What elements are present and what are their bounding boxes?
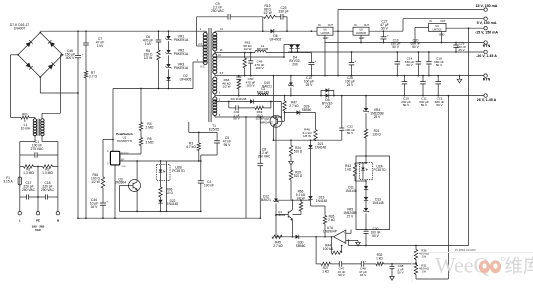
svg-text:16 V: 16 V bbox=[360, 273, 367, 277]
svg-text:1N4148: 1N4148 bbox=[167, 202, 178, 206]
svg-text:1N4148: 1N4148 bbox=[372, 201, 383, 205]
svg-text:2.7 Ω: 2.7 Ω bbox=[89, 75, 97, 79]
svg-text:1%: 1% bbox=[422, 255, 427, 259]
svg-text:MP1345: MP1345 bbox=[257, 91, 269, 95]
svg-text:1N4148: 1N4148 bbox=[315, 145, 326, 149]
svg-text:OUT: OUT bbox=[328, 24, 334, 27]
svg-text:95 V: 95 V bbox=[224, 143, 232, 147]
svg-text:RTN: RTN bbox=[483, 44, 491, 48]
svg-text:IN: IN bbox=[430, 20, 433, 23]
svg-text:100 kΩ: 100 kΩ bbox=[323, 247, 334, 251]
svg-text:PE: PE bbox=[36, 219, 40, 223]
svg-text:PI-4884-021306: PI-4884-021306 bbox=[455, 248, 476, 252]
svg-text:1%: 1% bbox=[422, 270, 427, 274]
svg-text:-15 V, 150 mA: -15 V, 150 mA bbox=[475, 30, 498, 34]
svg-text:IN: IN bbox=[354, 24, 357, 27]
svg-text:50 V: 50 V bbox=[406, 63, 413, 67]
svg-text:50 V: 50 V bbox=[392, 45, 399, 49]
svg-text:4.7 kΩ: 4.7 kΩ bbox=[186, 145, 196, 149]
svg-text:1 kΩ: 1 kΩ bbox=[376, 256, 383, 260]
svg-text:PC817D: PC817D bbox=[373, 168, 386, 172]
svg-text:275 VAC: 275 VAC bbox=[31, 147, 45, 151]
svg-text:1.3 MΩ: 1.3 MΩ bbox=[23, 171, 34, 175]
svg-text:2.7 kΩ: 2.7 kΩ bbox=[273, 244, 283, 248]
svg-text:100 nF: 100 nF bbox=[204, 183, 214, 187]
svg-text:2 kΩ: 2 kΩ bbox=[328, 218, 335, 222]
svg-text:UA7815: UA7815 bbox=[321, 32, 330, 35]
svg-text:LM78L05: LM78L05 bbox=[356, 32, 367, 35]
svg-text:1N4007: 1N4007 bbox=[14, 27, 26, 31]
svg-text:8,9: 8,9 bbox=[220, 72, 224, 75]
svg-text:50 V: 50 V bbox=[436, 103, 443, 107]
svg-text:2N3642: 2N3642 bbox=[275, 213, 286, 217]
svg-text:1/8 W: 1/8 W bbox=[296, 196, 304, 200]
svg-text:UF4002: UF4002 bbox=[270, 38, 282, 42]
svg-text:400 V: 400 V bbox=[66, 56, 75, 60]
svg-text:1N4148: 1N4148 bbox=[316, 199, 327, 203]
svg-text:RTN: RTN bbox=[483, 78, 491, 82]
svg-text:50 V: 50 V bbox=[338, 273, 345, 277]
svg-text:50 V: 50 V bbox=[347, 131, 354, 135]
svg-text:200: 200 bbox=[292, 63, 298, 67]
svg-text:E25/25: E25/25 bbox=[209, 128, 220, 132]
svg-text:SB560: SB560 bbox=[302, 108, 312, 112]
svg-text:2.7 kΩ: 2.7 kΩ bbox=[289, 104, 299, 108]
svg-text:250 VAC: 250 VAC bbox=[22, 188, 36, 192]
svg-text:PC817D: PC817D bbox=[172, 169, 185, 173]
svg-text:5 V, 150 mA: 5 V, 150 mA bbox=[477, 21, 497, 25]
svg-text:25 V: 25 V bbox=[306, 83, 314, 87]
svg-text:MP1345: MP1345 bbox=[257, 47, 269, 51]
svg-text:50 V: 50 V bbox=[412, 45, 419, 49]
svg-text:-26 V, 1.45 A: -26 V, 1.45 A bbox=[476, 54, 497, 58]
svg-text:GND: GND bbox=[121, 166, 126, 168]
svg-text:2N3904: 2N3904 bbox=[115, 181, 126, 185]
svg-text:L: L bbox=[19, 219, 21, 223]
svg-text:510 Ω: 510 Ω bbox=[294, 174, 303, 178]
svg-text:50 V: 50 V bbox=[436, 63, 443, 67]
svg-text:LM7915: LM7915 bbox=[433, 28, 442, 31]
svg-text:1/8 W: 1/8 W bbox=[303, 134, 311, 138]
svg-text:130 Ω: 130 Ω bbox=[372, 132, 381, 136]
svg-text:1 kΩ: 1 kΩ bbox=[345, 167, 352, 171]
svg-text:250 VAC: 250 VAC bbox=[211, 9, 225, 13]
svg-text:250 VAC: 250 VAC bbox=[258, 154, 271, 158]
svg-text:510 Ω: 510 Ω bbox=[294, 149, 303, 153]
svg-text:维库: 维库 bbox=[505, 256, 533, 277]
svg-text:EN/UV: EN/UV bbox=[121, 152, 129, 155]
svg-text:GND: GND bbox=[359, 37, 365, 40]
svg-text:P6KE91A: P6KE91A bbox=[174, 52, 189, 56]
svg-text:1 kV: 1 kV bbox=[145, 42, 152, 46]
svg-text:MPSA42: MPSA42 bbox=[260, 120, 272, 124]
svg-text:BAV21: BAV21 bbox=[261, 198, 271, 202]
svg-text:26 V, 1.45 A: 26 V, 1.45 A bbox=[477, 98, 497, 102]
svg-text:1 kΩ: 1 kΩ bbox=[322, 269, 329, 273]
svg-text:50 V: 50 V bbox=[403, 103, 410, 107]
svg-text:1/2 W: 1/2 W bbox=[243, 47, 251, 51]
svg-text:IN: IN bbox=[318, 24, 321, 27]
svg-text:OUT: OUT bbox=[440, 20, 446, 23]
svg-text:GND: GND bbox=[323, 37, 329, 40]
svg-text:330 pF: 330 pF bbox=[278, 10, 288, 14]
svg-text:50 V: 50 V bbox=[421, 103, 428, 107]
svg-text:2,3: 2,3 bbox=[198, 43, 202, 46]
svg-text:N.C.: N.C. bbox=[201, 66, 206, 69]
svg-text:2 MΩ: 2 MΩ bbox=[146, 141, 154, 145]
svg-text:3.15 A: 3.15 A bbox=[3, 180, 13, 184]
svg-text:VAC: VAC bbox=[35, 228, 42, 232]
svg-text:50 V: 50 V bbox=[397, 271, 404, 275]
svg-text:1/2 W: 1/2 W bbox=[222, 85, 230, 89]
svg-text:P6KE91A: P6KE91A bbox=[174, 66, 189, 70]
svg-text:250 VAC: 250 VAC bbox=[41, 188, 55, 192]
svg-text:SB560: SB560 bbox=[296, 244, 306, 248]
svg-text:16 V: 16 V bbox=[91, 205, 99, 209]
svg-text:200: 200 bbox=[325, 105, 331, 109]
svg-text:50 V: 50 V bbox=[233, 117, 240, 121]
svg-text:OUT: OUT bbox=[364, 24, 370, 27]
svg-text:1.3 MΩ: 1.3 MΩ bbox=[42, 171, 53, 175]
svg-text:N: N bbox=[57, 219, 59, 223]
svg-text:1N4148: 1N4148 bbox=[345, 189, 356, 193]
svg-text:P6KE91A: P6KE91A bbox=[174, 38, 189, 42]
svg-text:25 V: 25 V bbox=[374, 115, 381, 119]
svg-text:15 V, 150 mA: 15 V, 150 mA bbox=[476, 4, 498, 8]
svg-text:UF4005: UF4005 bbox=[180, 78, 192, 82]
svg-text:PKS607YN: PKS607YN bbox=[117, 139, 132, 143]
svg-text:D3 1N4148: D3 1N4148 bbox=[231, 97, 247, 101]
svg-text:10 mH: 10 mH bbox=[21, 127, 31, 131]
svg-text:1/2 W: 1/2 W bbox=[144, 56, 153, 60]
svg-text:2 MΩ: 2 MΩ bbox=[146, 126, 154, 130]
svg-text:27 V: 27 V bbox=[347, 214, 354, 218]
svg-text:10 Ω: 10 Ω bbox=[166, 191, 173, 195]
svg-text:1 kV: 1 kV bbox=[97, 44, 104, 48]
svg-text:50 V: 50 V bbox=[372, 234, 379, 238]
svg-text:100 V: 100 V bbox=[246, 84, 255, 88]
svg-text:50 V: 50 V bbox=[381, 27, 389, 31]
svg-text:25 V: 25 V bbox=[347, 83, 354, 87]
svg-text:100 V: 100 V bbox=[255, 66, 264, 70]
svg-text:RF1: RF1 bbox=[22, 112, 28, 116]
svg-text:D: D bbox=[107, 150, 109, 153]
svg-text:1/2 W: 1/2 W bbox=[263, 11, 272, 15]
svg-text:1/2 W: 1/2 W bbox=[91, 180, 100, 184]
svg-text:25 V: 25 V bbox=[458, 48, 464, 52]
